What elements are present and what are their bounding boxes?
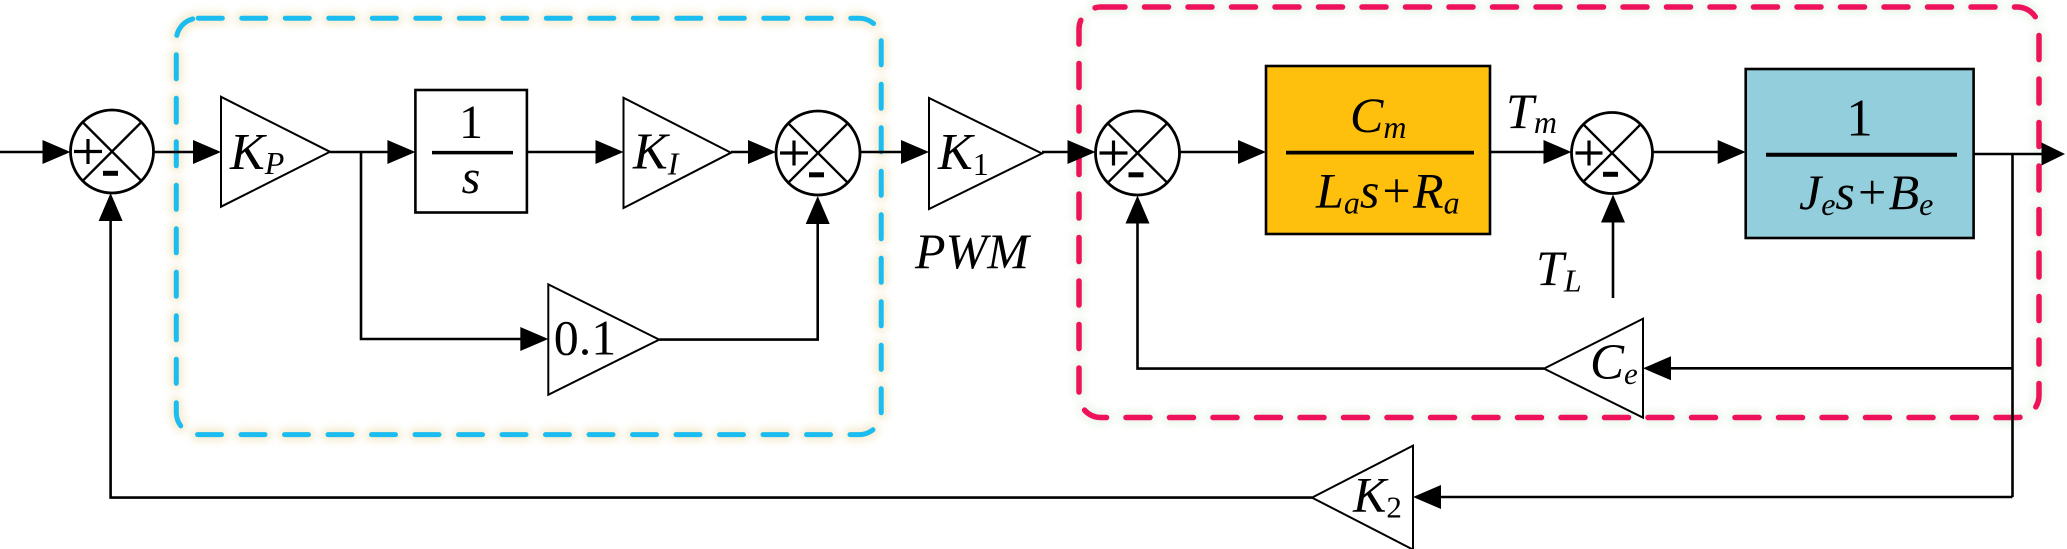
arrowhead into KP bbox=[193, 140, 221, 164]
wire K2 feedback from tap bbox=[1439, 496, 2013, 499]
svg-text:Tm: Tm bbox=[1506, 83, 1557, 140]
gain triangle Ce bbox=[1544, 319, 1643, 418]
arrowhead into K2 bbox=[1413, 485, 1441, 509]
arrowhead into armature block bbox=[1238, 140, 1266, 164]
wire KP to integrator block bbox=[330, 151, 391, 154]
PI controller dashed box glow bbox=[176, 18, 881, 434]
arrowhead TL up into S4 bbox=[1601, 195, 1625, 223]
summing junction S3 bbox=[1096, 111, 1180, 195]
arrowhead into S3 bbox=[1068, 140, 1096, 164]
arrowhead into S4 bbox=[1544, 140, 1572, 164]
wire branch node down from KP output bbox=[361, 152, 522, 339]
arrowhead into K1 bbox=[901, 140, 929, 164]
motor model dashed box (pink) bbox=[1079, 7, 2039, 418]
svg-text:Las+Ra: Las+Ra bbox=[1315, 163, 1460, 221]
summing junction S4 bbox=[1572, 113, 1653, 194]
wire Ce output to S3 bbox=[1138, 222, 1545, 369]
gain triangle 0.1 bbox=[548, 284, 659, 394]
gain triangle KI bbox=[624, 98, 732, 208]
wire K2 output to S1 bbox=[111, 221, 1312, 498]
svg-text:1: 1 bbox=[459, 96, 483, 149]
svg-text:1: 1 bbox=[1846, 90, 1873, 148]
wire S2 to K1 bbox=[860, 151, 905, 154]
arrowhead into Ce bbox=[1643, 356, 1671, 380]
wire S3 to armature block bbox=[1180, 151, 1243, 154]
armature block Cm/(Las+Ra) bbox=[1266, 66, 1490, 234]
gain triangle K2 bbox=[1312, 446, 1413, 549]
gain triangle KP bbox=[221, 97, 330, 207]
wire K1 to S3 bbox=[1042, 151, 1071, 154]
wire TL input bbox=[1612, 222, 1615, 298]
label TL bbox=[1536, 240, 1582, 299]
wire armature block to S4 bbox=[1490, 151, 1547, 154]
svg-text:0.1: 0.1 bbox=[554, 310, 617, 366]
wire output bbox=[1974, 153, 2043, 156]
svg-text:Jes+Be: Jes+Be bbox=[1799, 164, 1933, 222]
arrowhead into S2 bbox=[748, 140, 776, 164]
label Tm bbox=[1506, 83, 1557, 140]
label PWM bbox=[914, 223, 1031, 279]
svg-text:TL: TL bbox=[1536, 240, 1582, 299]
summing junction S2 bbox=[776, 111, 860, 195]
integrator block 1/s bbox=[415, 90, 527, 213]
wire Ce feedback from tap bbox=[1669, 367, 2013, 370]
wire S4 to mechanical block bbox=[1653, 151, 1723, 154]
arrowhead input into S1 bbox=[43, 140, 71, 164]
arrowhead up into S2 bottom bbox=[806, 196, 830, 224]
svg-text:s: s bbox=[462, 151, 481, 204]
arrowhead into integrator block bbox=[387, 140, 415, 164]
mechanical block 1/(Jes+Be) bbox=[1746, 69, 1974, 238]
wire KI to S2 bbox=[731, 151, 752, 154]
wire input bbox=[0, 151, 44, 154]
arrowhead into mechanical block bbox=[1718, 140, 1746, 164]
svg-text:PWM: PWM bbox=[914, 223, 1031, 279]
wire integrator to KI bbox=[527, 151, 599, 154]
arrowhead up into S3 bottom bbox=[1126, 196, 1150, 224]
PI controller dashed box (cyan) bbox=[176, 18, 881, 434]
motor model dashed box glow bbox=[1079, 7, 2039, 418]
arrowhead into KI bbox=[596, 140, 624, 164]
gain triangle K1 bbox=[929, 98, 1042, 209]
arrowhead up into S1 bottom bbox=[99, 193, 123, 221]
arrowhead into 0.1 gain bbox=[520, 327, 548, 351]
summing junction S1 bbox=[71, 110, 154, 193]
wire feedback tap vertical right bbox=[2011, 154, 2014, 497]
wire S1 to KP bbox=[154, 151, 197, 154]
arrowhead output bbox=[2042, 143, 2066, 166]
wire 0.1 output up to S2 bbox=[659, 223, 818, 340]
